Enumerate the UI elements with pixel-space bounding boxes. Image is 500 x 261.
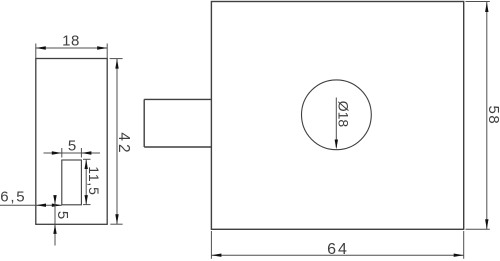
dimension 42: dimension line bbox=[116, 59, 118, 225]
dimension 11,5: dimension line bbox=[85, 159, 87, 204]
dimension 58: arrow bottom bbox=[485, 219, 488, 229]
svg-text:11,5: 11,5 bbox=[86, 166, 102, 195]
dimension 64: dimension line bbox=[211, 254, 463, 256]
dimension 42: extension line top bbox=[110, 58, 123, 60]
dimension 18: extension line right bbox=[106, 44, 108, 59]
dimension 5 (slot width): extension line left bbox=[61, 148, 63, 158]
dimension 64: extension line right bbox=[463, 231, 465, 259]
dimension 18: dimension line bbox=[36, 47, 107, 49]
front view main rectangle (64 x 58) bbox=[211, 2, 463, 230]
dimension 58: extension line top bbox=[466, 1, 490, 3]
circle leader line bbox=[335, 98, 337, 148]
dimension 11,5: arrow top bbox=[85, 160, 88, 170]
dimension 6,5: arrow right (tip at slot edge) bbox=[52, 204, 62, 207]
dimension 5 (slot bottom offset): arrow up (from below) bbox=[53, 224, 56, 234]
dimension 11,5: arrow bottom bbox=[85, 195, 88, 205]
dimension 18: arrow right bbox=[97, 46, 107, 49]
dimension 64: arrow left bbox=[211, 254, 221, 257]
dimension 5 (slot width): dimension line bbox=[44, 152, 101, 154]
circle Ø18 bbox=[302, 80, 372, 150]
svg-text:18: 18 bbox=[62, 33, 80, 50]
svg-text:58: 58 bbox=[485, 106, 500, 126]
dimension 5 (slot width): arrow right (outside) bbox=[81, 151, 91, 154]
dimension 11,5: extension line bottom bbox=[83, 204, 91, 206]
side tab: top edge bbox=[144, 98, 211, 100]
svg-text:5: 5 bbox=[68, 137, 76, 154]
dimension 6,5: dimension line bbox=[0, 204, 62, 206]
dimension 42: arrow top bbox=[115, 59, 118, 69]
dimension 64: arrow right bbox=[454, 254, 464, 257]
dimension 18: extension line left bbox=[35, 44, 37, 59]
dimension 5 (slot bottom offset): dimension line bbox=[54, 196, 56, 246]
dimension 58: dimension line bbox=[486, 2, 488, 230]
left view outer rectangle (18 x 42) bbox=[36, 59, 107, 225]
side tab: left edge bbox=[143, 99, 145, 147]
dimension 64: extension line left bbox=[210, 231, 212, 259]
left view inner slot rectangle (5 x 11.5) bbox=[62, 160, 82, 205]
dimension 5 (slot width): arrow left (outside) bbox=[52, 151, 62, 154]
circle leader arrow bbox=[335, 140, 338, 150]
dimension 11,5: extension line top bbox=[83, 158, 91, 160]
svg-text:64: 64 bbox=[327, 241, 349, 258]
side tab: bottom edge bbox=[144, 146, 211, 148]
dimension 42: arrow bottom bbox=[115, 214, 118, 224]
dimension 5 (slot width): extension line right bbox=[80, 148, 82, 158]
dimension 58: extension line bottom bbox=[466, 228, 490, 230]
dimension 6,5: arrow left (tip at outer rect edge) bbox=[36, 204, 46, 207]
svg-text:Ø18: Ø18 bbox=[335, 101, 351, 128]
dimension 5 (slot bottom offset): arrow down (from above) bbox=[53, 195, 56, 205]
dimension 58: arrow top bbox=[485, 2, 488, 12]
svg-text:6,5: 6,5 bbox=[0, 188, 26, 205]
svg-text:42: 42 bbox=[115, 132, 132, 155]
dimension 18: arrow left bbox=[36, 46, 46, 49]
dimension 42: extension line bottom bbox=[110, 223, 122, 225]
svg-text:5: 5 bbox=[54, 211, 71, 219]
